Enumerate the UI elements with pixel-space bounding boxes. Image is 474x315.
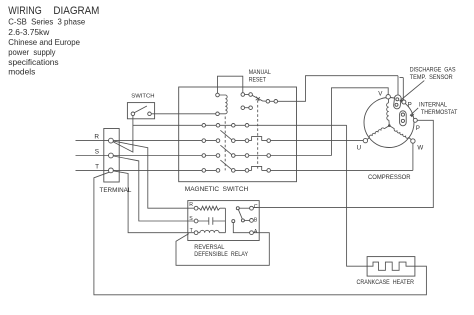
terminal box — [104, 129, 119, 183]
svg-text:U: U — [357, 144, 361, 151]
svg-text:R: R — [189, 202, 193, 208]
svg-text:CRANKCASE HEATER: CRANKCASE HEATER — [357, 279, 415, 286]
reset contact link — [243, 94, 251, 96]
overload element row2 — [252, 137, 262, 141]
contact arm row2 — [220, 130, 232, 140]
manual reset contact circles — [241, 93, 245, 97]
wire R phase input to terminal and magnetic switch row2 — [76, 140, 219, 142]
switch terminal circles — [131, 112, 135, 116]
svg-text:S: S — [189, 216, 193, 222]
overload element row4 — [252, 166, 262, 170]
svg-text:Chinese and Europe: Chinese and Europe — [8, 37, 80, 47]
magnetic switch row3 contact circles — [202, 154, 206, 158]
switch arm — [134, 106, 147, 113]
compressor terminal U — [363, 138, 367, 142]
compressor body circle — [364, 98, 414, 148]
wire relay T feed — [111, 170, 196, 232]
magnetic switch row1 contact circles — [202, 124, 206, 128]
wire T phase input to terminal and magnetic switch row4 — [76, 169, 219, 171]
wire S phase input to terminal and magnetic switch row3 — [76, 155, 219, 157]
svg-text:DIAGRAM: DIAGRAM — [53, 5, 99, 17]
wire row4 contact to overload — [233, 169, 251, 171]
contact arm row3 — [220, 145, 232, 155]
magnetic switch row2 contact circles — [202, 139, 206, 143]
terminal P2 thermostat — [413, 118, 417, 122]
wire thermostat P to relay C — [252, 120, 434, 207]
wire relay R feed — [111, 141, 196, 209]
relay A link — [233, 221, 251, 233]
wire row1 node down to crankcase heater — [347, 125, 368, 266]
svg-text:R: R — [94, 133, 99, 140]
svg-text:C: C — [254, 204, 258, 210]
svg-text:REVERSAL: REVERSAL — [194, 244, 224, 251]
svg-text:2.6-3.75kw: 2.6-3.75kw — [8, 27, 50, 37]
wire thermostat to P2 — [405, 119, 416, 121]
manual reset loop wire — [218, 76, 243, 95]
svg-text:SWITCH: SWITCH — [131, 93, 154, 99]
terminal P1 discharge — [402, 100, 406, 104]
svg-text:B: B — [254, 218, 258, 224]
svg-text:THERMOSTAT: THERMOSTAT — [421, 109, 458, 116]
svg-text:WIRING: WIRING — [8, 5, 41, 17]
switch box — [127, 103, 154, 119]
manual reset trip arm — [251, 95, 268, 102]
overload trip linkage dashed — [257, 100, 259, 170]
wire terminal T to bottom run and heater right side — [94, 172, 427, 295]
reversal defensible relay box — [188, 201, 259, 241]
svg-text:MANUAL: MANUAL — [249, 69, 272, 76]
wire riser to W terminal — [412, 141, 414, 170]
wire P1 to internal thermostat — [403, 104, 405, 112]
trip cross mark — [256, 97, 260, 101]
svg-text:P: P — [416, 125, 420, 132]
wire row4 overload to compressor W riser — [262, 169, 413, 171]
title text block — [8, 5, 99, 77]
compressor winding W — [389, 126, 394, 129]
svg-text:specifications: specifications — [8, 57, 58, 67]
capacitor plates — [209, 217, 213, 224]
svg-text:MAGNETIC SWITCH: MAGNETIC SWITCH — [185, 186, 249, 193]
coil stubs — [218, 95, 226, 114]
internal thermostat pointer arrow — [410, 108, 418, 116]
crankcase heater element — [367, 262, 415, 270]
resistor in relay — [199, 206, 220, 210]
relay R row lead — [196, 207, 225, 209]
svg-text:P: P — [408, 102, 412, 109]
compressor winding V — [388, 99, 390, 103]
contactor coil terminals — [216, 93, 220, 97]
contact arm row4 — [220, 160, 232, 170]
wire relay S feed — [111, 156, 196, 222]
svg-text:A: A — [254, 229, 258, 235]
compressor terminal V — [386, 95, 390, 99]
discharge sensor pointer arrow — [400, 81, 425, 101]
discharge sensor lead tube — [398, 76, 403, 100]
wire node to compressor V — [332, 88, 389, 156]
svg-text:W: W — [417, 144, 423, 151]
svg-text:models: models — [8, 67, 35, 77]
relay T row lead — [196, 232, 225, 234]
contactor coil — [225, 95, 227, 114]
relay terminal circles — [194, 206, 198, 210]
svg-text:TEMP. SENSOR: TEMP. SENSOR — [410, 74, 453, 81]
svg-text:V: V — [378, 90, 383, 97]
reset output contact pair link — [268, 100, 276, 102]
crankcase heater box — [367, 257, 415, 277]
compressor winding U — [384, 126, 389, 129]
internal thermostat capsule — [400, 111, 407, 126]
relay S row lead — [196, 220, 225, 222]
relay C pole link — [238, 207, 252, 209]
wire switch output to contactor coil — [150, 113, 218, 115]
inductor in relay — [200, 230, 219, 232]
svg-text:RESET: RESET — [249, 76, 267, 83]
wire row2 contact to overload — [233, 140, 251, 142]
svg-text:power supply: power supply — [8, 47, 56, 57]
wire row1 auxiliary contact line — [133, 124, 347, 126]
svg-text:INTERNAL: INTERNAL — [419, 102, 448, 109]
terminal R S T circles — [109, 138, 114, 143]
svg-text:DISCHARGE GAS: DISCHARGE GAS — [410, 67, 456, 74]
svg-text:C-SB Series 3 phase: C-SB Series 3 phase — [8, 16, 85, 26]
compressor terminal W — [411, 139, 415, 143]
wire reset output to discharge sensor — [276, 76, 398, 102]
compressor star point — [388, 124, 391, 127]
wire terminal R to switch riser — [111, 114, 133, 152]
magnetic switch row4 contact circles — [202, 169, 206, 173]
wire relay A external loop to T feed — [176, 233, 269, 266]
discharge gas temp sensor capsule — [393, 95, 401, 110]
svg-text:T: T — [95, 164, 99, 171]
svg-text:COMPRESSOR: COMPRESSOR — [368, 174, 411, 181]
relay B link — [243, 219, 252, 221]
svg-text:TERMINAL: TERMINAL — [100, 187, 132, 194]
wire row3 contact output to node — [233, 155, 331, 157]
svg-text:S: S — [95, 148, 99, 155]
svg-text:DEFENSIBLE RELAY: DEFENSIBLE RELAY — [194, 251, 248, 258]
magnetic switch box — [179, 87, 297, 182]
relay switch arm — [238, 208, 243, 220]
wire row2 overload to compressor U — [262, 140, 366, 142]
reset aux contact pair link — [243, 107, 251, 109]
contactor linkage dashed — [224, 117, 226, 171]
relay component bus — [224, 208, 226, 233]
